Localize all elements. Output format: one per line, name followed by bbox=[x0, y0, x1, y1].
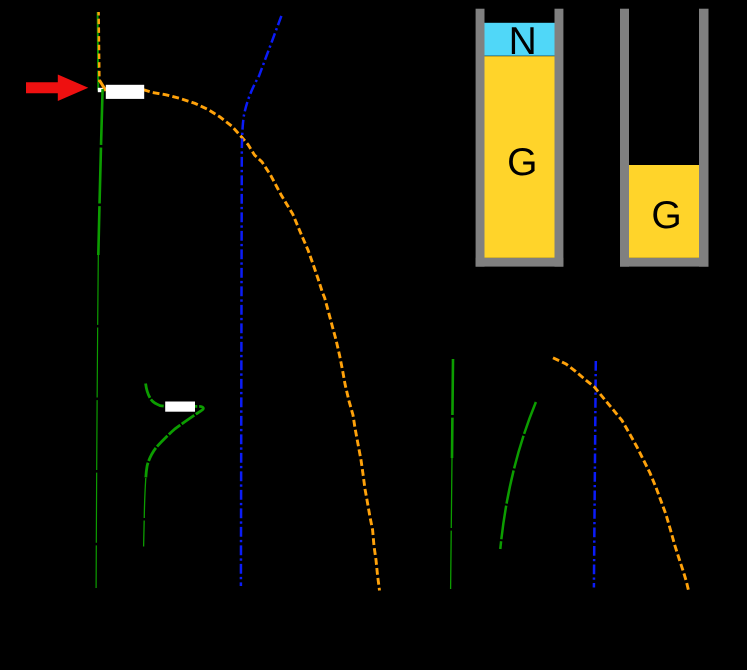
melting line lower segment upper part (green, left panel) bbox=[98, 89, 102, 255]
tube 1: bottom bbox=[476, 258, 564, 267]
svg-text:N: N bbox=[509, 20, 537, 63]
tube 2: bottom bbox=[620, 258, 709, 267]
big white rectangle label box (left panel top) bbox=[106, 85, 144, 99]
blue dash-dot line (left panel) bbox=[241, 13, 283, 586]
tube 1: yellow layer G bbox=[485, 56, 555, 258]
red arrow bbox=[26, 75, 88, 102]
small green hook curve (left panel bottom) bbox=[146, 384, 204, 479]
orange curve corner at junction bbox=[99, 80, 106, 91]
small green hook curve tail (left panel bottom) bbox=[144, 478, 146, 547]
melting line lower segment lower part (green, left panel) bbox=[96, 255, 98, 588]
white gap marker at junction bbox=[98, 88, 103, 92]
svg-text:G: G bbox=[651, 194, 681, 237]
right panel: green vertical line upper part bbox=[452, 359, 453, 458]
tube 2: right wall bbox=[699, 9, 709, 267]
right panel: green vertical line lower part bbox=[451, 458, 452, 589]
tube 2: left wall bbox=[620, 9, 629, 267]
tube 2: yellow layer G bbox=[629, 165, 699, 258]
main orange dashed curve (left panel) bbox=[143, 90, 379, 591]
vapour line vertical dashed segment (orange, left panel top) bbox=[97, 12, 100, 82]
tube 1: right wall bbox=[555, 9, 564, 267]
right panel: blue dash-dot line bbox=[594, 361, 596, 588]
right panel: green arc bbox=[500, 402, 536, 549]
white rectangle label box (on hook curve) bbox=[165, 402, 195, 412]
tube 1: cyan layer N bbox=[485, 23, 555, 56]
tube 1: left wall bbox=[476, 9, 485, 267]
svg-text:G: G bbox=[507, 141, 537, 184]
right panel: orange dashed arc bbox=[553, 358, 689, 593]
melting line upper segment (green, left panel) bbox=[97, 12, 100, 91]
